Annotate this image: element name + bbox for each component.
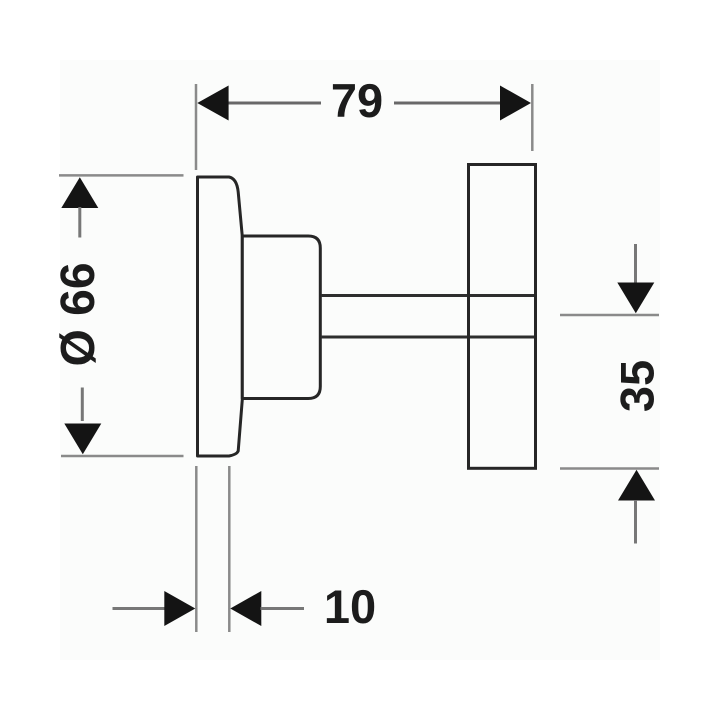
- dimension 10 : right arrow: [230, 591, 261, 626]
- dimension 79 : dim line right segment: [394, 102, 505, 105]
- dimension 35 : lower stem: [634, 500, 637, 544]
- dimension 35 : extension line bottom: [560, 467, 659, 470]
- svg-text:Ø 66: Ø 66: [52, 262, 105, 366]
- dimension 35 : upper stem: [634, 244, 637, 284]
- dimension Ø66 : lower arrow: [64, 424, 101, 455]
- handle hub: [242, 236, 320, 399]
- dimension 79 : dim line left segment: [224, 102, 321, 105]
- dimension 10 : extension line right: [228, 466, 231, 632]
- dimension 79 : extension line left: [195, 84, 198, 170]
- dimension 10 : right stem: [261, 607, 305, 610]
- dimension 35 : lower arrow: [618, 470, 655, 501]
- dimension Ø66 : upper arrow: [61, 177, 98, 208]
- dimension 79 : right arrow: [500, 86, 531, 121]
- escutcheon (wall plate, side view): [198, 177, 243, 456]
- stem bottom line: [321, 336, 536, 339]
- dimension 10 : left stem: [113, 607, 166, 610]
- dimension Ø66 : extension line bottom: [61, 455, 184, 458]
- dimension Ø66 : lower stem: [81, 388, 84, 422]
- stem top line: [321, 294, 536, 297]
- dimension 79 : extension line right: [531, 84, 534, 151]
- svg-text:35: 35: [611, 360, 664, 412]
- dimension Ø66 : upper stem: [78, 207, 81, 238]
- dimension Ø66 : extension line top: [59, 174, 184, 177]
- svg-text:79: 79: [331, 74, 383, 127]
- svg-text:10: 10: [324, 580, 376, 633]
- dimension 35 : upper arrow: [617, 283, 654, 314]
- dimension 10 : left arrow: [164, 591, 195, 626]
- handle bar (front rectangle): [469, 165, 536, 469]
- dimension 35 : extension line top: [560, 314, 659, 317]
- dimension 79 : left arrow: [197, 86, 228, 121]
- dimension 10 : extension line left: [195, 466, 198, 632]
